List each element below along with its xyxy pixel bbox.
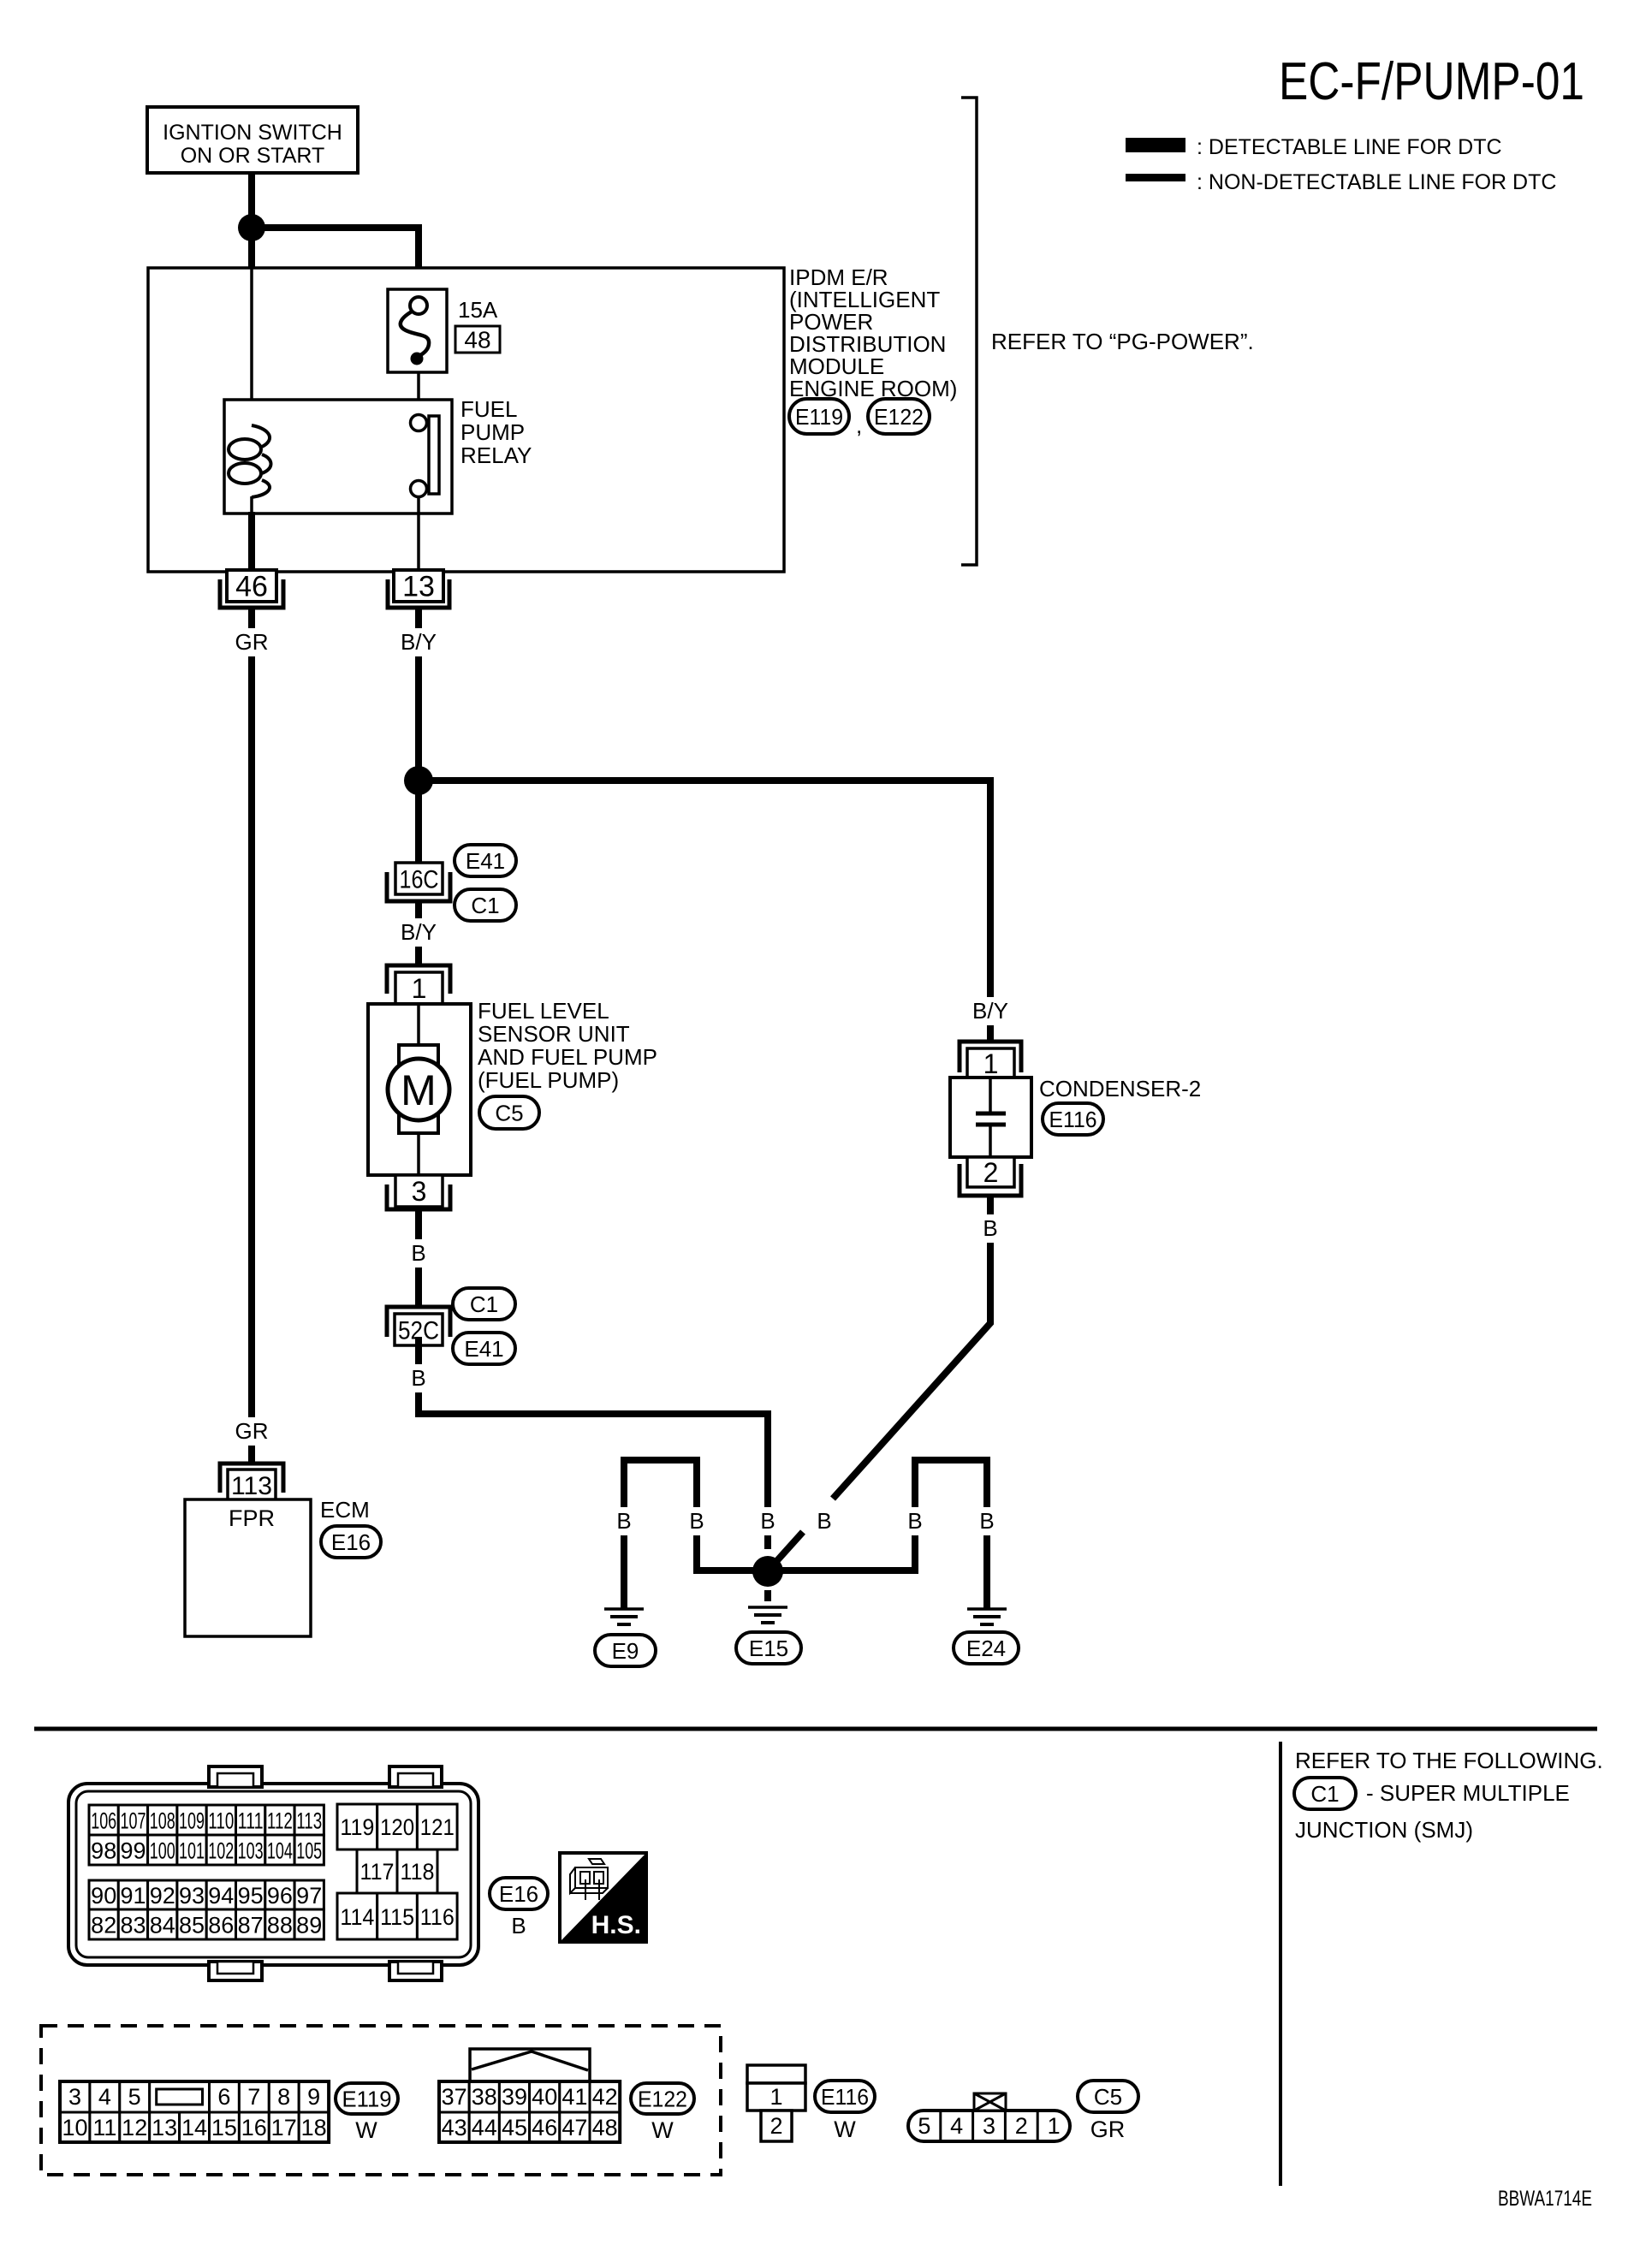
svg-text:REFER TO “PG-POWER”.: REFER TO “PG-POWER”. [991,329,1254,354]
C1 oval (SMJ note) [1294,1778,1356,1809]
svg-text:114: 114 [340,1904,374,1930]
E122 connector face grid [439,2081,620,2142]
wire junction to 16C [415,781,422,863]
connector E41 oval (16C) [455,845,516,876]
svg-text:(FUEL PUMP): (FUEL PUMP) [478,1067,619,1093]
wire B/Y: pin13 down to junction [415,608,422,781]
svg-text:102: 102 [208,1838,234,1864]
svg-text:42: 42 [592,2084,618,2110]
svg-text:113: 113 [231,1472,272,1500]
svg-text:14: 14 [181,2115,207,2140]
fuel pump pin 3 connector [387,1175,450,1209]
svg-text:W: W [651,2117,674,2143]
svg-text:RELAY: RELAY [461,442,532,468]
svg-text:FPR: FPR [229,1505,275,1531]
wire color label B (E9 right arm) [685,1507,709,1535]
ignition switch box [147,107,358,173]
fuse number 48 box [455,326,500,353]
svg-text:83: 83 [120,1913,146,1938]
svg-text:E9: E9 [612,1638,639,1664]
svg-text:9: 9 [307,2084,320,2110]
wire color label B (on diagonal) [812,1507,836,1535]
svg-text:87: 87 [238,1913,264,1938]
pin 46 connector [220,570,283,608]
svg-text:103: 103 [238,1838,264,1864]
connector E122 oval [868,399,930,434]
E122 roof tab [470,2049,590,2081]
wire color label B (below 52C) [407,1364,431,1392]
svg-text:E16: E16 [499,1881,538,1907]
svg-text:117: 117 [360,1859,395,1885]
connector E119 oval (face) [336,2083,398,2114]
connector E24 oval [954,1632,1019,1664]
wire color label B (E24 left arm) [903,1507,927,1535]
svg-text:15: 15 [211,2115,237,2140]
svg-text:E41: E41 [464,1336,503,1362]
svg-text:SENSOR UNIT: SENSOR UNIT [478,1021,630,1047]
svg-text:ON OR START: ON OR START [181,144,325,168]
legend: detectable line sample [1126,135,1502,159]
svg-text:44: 44 [472,2115,497,2140]
svg-text:B: B [689,1508,704,1534]
connector E116 oval [1043,1103,1103,1135]
ground symbol E24 [967,1609,1007,1624]
svg-text:B: B [411,1240,425,1266]
svg-text:95: 95 [238,1883,264,1909]
svg-text:7: 7 [247,2084,260,2110]
svg-text:116: 116 [420,1904,455,1930]
wire coil branch inside IPDM [250,268,253,425]
svg-text:: NON-DETECTABLE LINE FOR DTC: : NON-DETECTABLE LINE FOR DTC [1197,170,1556,194]
E116 connector face [747,2065,805,2141]
svg-text:E119: E119 [342,2086,392,2111]
connector E15 oval [736,1632,801,1664]
svg-text:45: 45 [502,2115,527,2140]
svg-text:13: 13 [152,2115,177,2140]
condenser-2 box with capacitor [950,1078,1031,1157]
svg-text:84: 84 [150,1913,175,1938]
wire color label GR (C5) [1090,2117,1126,2142]
svg-text:12: 12 [122,2115,147,2140]
svg-text:2: 2 [983,1157,999,1188]
fuse 15A box [388,289,447,372]
connector E16 oval (face) [490,1878,548,1909]
svg-text:4: 4 [950,2113,963,2139]
condenser-2 label [1039,1076,1201,1101]
svg-text:4: 4 [98,2084,111,2110]
svg-text:111: 111 [238,1808,264,1834]
wire junction to condenser branch [419,781,990,1041]
wire coil to pin 46 [250,496,253,570]
wire to ground E9 (staple) [624,1460,753,1610]
svg-text:IGNTION SWITCH: IGNTION SWITCH [163,121,342,145]
wire color label GR (top) [233,628,270,656]
IPDM E/R box [148,268,784,572]
wire contact to pin 13 [417,496,420,570]
svg-text:3: 3 [412,1176,427,1207]
svg-text:106: 106 [91,1808,116,1834]
svg-text:38: 38 [472,2084,497,2110]
svg-text:B: B [760,1508,775,1534]
connector 16C (SMJ) [387,863,450,901]
svg-text:37: 37 [442,2084,467,2110]
wire color label B (below condenser) [978,1214,1002,1243]
wire color label B (below pin 3) [407,1239,431,1268]
junction node B/Y split [404,766,433,795]
svg-text:47: 47 [562,2115,587,2140]
svg-text:E16: E16 [331,1529,371,1555]
svg-text:H.S.: H.S. [591,1911,641,1939]
svg-text:GR: GR [235,1418,269,1444]
svg-text:E15: E15 [749,1636,788,1661]
svg-text:C5: C5 [495,1100,523,1125]
svg-text:48: 48 [464,327,490,353]
svg-text:11: 11 [92,2115,116,2140]
svg-text:39: 39 [502,2084,527,2110]
E119 connector face grid [60,2081,329,2142]
svg-text:E116: E116 [1049,1107,1097,1132]
svg-text:B: B [979,1508,994,1534]
wire junction down into IPDM (coil branch) [248,228,255,268]
ECM box [185,1499,311,1636]
svg-text:PUMP: PUMP [461,419,525,445]
vertical divider [1279,1742,1282,2186]
svg-text:JUNCTION (SMJ): JUNCTION (SMJ) [1295,1817,1473,1843]
svg-text:1: 1 [983,1048,999,1079]
ECM pin 113 connector [220,1464,283,1500]
wire B: condenser to ground junction (diagonal) [772,1196,990,1566]
svg-text:118: 118 [401,1859,435,1885]
svg-text:101: 101 [179,1838,205,1864]
connector C1 oval (52C) [453,1288,515,1320]
svg-text:1: 1 [412,973,427,1004]
motor symbol M [388,1004,449,1175]
wire B: 52C down and right to ground junction [419,1337,768,1549]
svg-text:97: 97 [296,1883,322,1909]
svg-text:89: 89 [296,1913,322,1938]
ECM connector E16 housing [68,1766,478,1980]
H.S. logo [560,1853,646,1942]
svg-text:GR: GR [235,629,269,655]
svg-text:41: 41 [562,2084,587,2110]
svg-text:C1: C1 [1310,1781,1339,1807]
wire junction to fuse branch [252,228,419,289]
svg-text:- SUPER MULTIPLE: - SUPER MULTIPLE [1366,1780,1570,1806]
svg-text:E122: E122 [874,404,924,430]
refer to PG-POWER note [991,329,1254,354]
wire color label W (E119) [355,2117,377,2143]
wire color label B (E9 left) [612,1507,636,1535]
svg-text:46: 46 [235,571,268,603]
svg-text:AND FUEL PUMP: AND FUEL PUMP [478,1044,657,1070]
comma between ovals [856,413,862,438]
svg-text:94: 94 [208,1883,234,1909]
svg-text:107: 107 [121,1808,146,1834]
C5 connector face (pill) [908,2093,1070,2141]
svg-text:B/Y: B/Y [972,998,1008,1024]
fuel pump pin 1 connector [387,965,450,1004]
ground symbol E9 [604,1609,644,1624]
svg-text:1: 1 [1048,2113,1061,2139]
svg-text:48: 48 [592,2115,618,2140]
svg-text:109: 109 [179,1808,205,1834]
connector C5 oval (face) [1078,2081,1138,2112]
svg-text:91: 91 [120,1883,146,1909]
svg-text:B/Y: B/Y [401,629,437,655]
svg-text:ECM: ECM [320,1497,370,1523]
wire color label W (E116) [834,2117,856,2142]
fuel pump relay label [461,396,532,468]
svg-text:121: 121 [420,1814,455,1840]
wire color label B (E24 right) [975,1507,999,1535]
svg-text:93: 93 [179,1883,205,1909]
svg-text:16C: 16C [400,865,439,894]
svg-text:6: 6 [217,2084,230,2110]
svg-text:99: 99 [120,1838,146,1864]
fuel level sensor unit box [368,1004,471,1175]
junction node (ignition feed) [238,214,265,241]
wire color label B/Y (condenser branch) [965,997,1016,1025]
SMJ note text [1295,1780,1570,1843]
svg-text:15A: 15A [458,297,498,323]
svg-text:86: 86 [208,1913,234,1938]
svg-text:92: 92 [150,1883,175,1909]
relay coil [229,425,271,497]
E16 left pin grid (pins 82-113) [89,1805,324,1939]
svg-text:B: B [511,1913,526,1938]
svg-text:B: B [817,1508,831,1534]
svg-text:E122: E122 [638,2086,687,2111]
wire color label B (E16 face) [511,1913,526,1938]
title EC-F/PUMP-01 [1279,52,1584,111]
ground symbol E15 [748,1607,787,1623]
IPDM E/R label [789,264,957,401]
wire color label GR (bottom) [233,1417,270,1446]
svg-text:3: 3 [68,2084,81,2110]
svg-text:43: 43 [442,2115,467,2140]
svg-text:120: 120 [380,1814,414,1840]
svg-text:5: 5 [128,2084,141,2110]
svg-text:18: 18 [301,2115,327,2140]
dashed detail box [41,2026,721,2175]
svg-text:5: 5 [918,2113,930,2139]
svg-text:M: M [401,1066,437,1114]
svg-text:82: 82 [91,1913,116,1938]
condenser pin 1 connector [960,1042,1021,1079]
svg-text:112: 112 [267,1808,293,1834]
connector E116 oval (face) [815,2081,875,2112]
bracket for refer note [961,98,977,565]
drawing code [1498,2187,1592,2211]
svg-text:REFER TO THE FOLLOWING.: REFER TO THE FOLLOWING. [1295,1748,1603,1773]
svg-text:E119: E119 [795,404,843,430]
connector C5 oval [479,1096,539,1129]
svg-text:E24: E24 [966,1636,1006,1661]
wire color label B (center) [756,1507,780,1535]
svg-text:FUEL LEVEL: FUEL LEVEL [478,998,609,1024]
connector 52C (SMJ) [387,1307,450,1345]
wire ignition to junction [248,173,255,223]
relay contact circles and armature [411,415,440,497]
svg-text:B: B [411,1365,425,1391]
svg-text:W: W [355,2117,377,2143]
svg-text:40: 40 [532,2084,557,2110]
dashed stub to E15 ground [764,1590,771,1601]
svg-text:2: 2 [769,2113,782,2139]
svg-text:C1: C1 [471,893,499,918]
wire color label B/Y (below 16C) [393,918,444,947]
separator line [34,1727,1597,1731]
svg-text:17: 17 [271,2115,297,2140]
svg-text:105: 105 [296,1838,322,1864]
svg-text:E41: E41 [466,848,505,874]
svg-text:GR: GR [1090,2117,1126,2142]
svg-text:1: 1 [769,2084,782,2110]
wire B: pin3 to 52C [415,1209,422,1307]
svg-text:98: 98 [91,1838,116,1864]
ground junction node [752,1556,783,1587]
ECM label [320,1497,370,1523]
svg-text:C1: C1 [470,1291,498,1317]
svg-text:85: 85 [179,1913,205,1938]
svg-text:110: 110 [208,1808,234,1834]
svg-text:88: 88 [267,1913,293,1938]
svg-text:96: 96 [267,1883,293,1909]
svg-text:,: , [856,413,862,438]
pin 13 connector [388,570,449,608]
svg-text:FUEL: FUEL [461,396,517,422]
svg-text:W: W [834,2117,856,2142]
fuel pump relay box [224,400,452,514]
wire to ground E24 (staple) [782,1460,987,1610]
wire 16C to fuel pump pin 1 [415,901,422,965]
svg-text:2: 2 [1015,2113,1028,2139]
fuse rating 15A [458,297,498,323]
svg-text:B: B [907,1508,922,1534]
connector E41 oval (52C) [453,1333,515,1364]
fuel pump label [478,998,657,1093]
svg-text:B/Y: B/Y [401,919,437,945]
wire color label W (E122) [651,2117,674,2143]
svg-text:B: B [983,1215,997,1241]
svg-text:90: 90 [91,1883,116,1909]
svg-text:EC-F/PUMP-01: EC-F/PUMP-01 [1279,52,1584,111]
svg-text:: DETECTABLE LINE FOR DTC: : DETECTABLE LINE FOR DTC [1197,135,1502,159]
svg-text:8: 8 [277,2084,290,2110]
connector C1 oval (16C) [455,889,516,921]
svg-text:16: 16 [241,2115,267,2140]
connector E119 oval [789,399,849,434]
connector E9 oval [595,1635,656,1666]
svg-text:10: 10 [62,2115,87,2140]
svg-text:B: B [616,1508,631,1534]
condenser pin 2 connector [960,1157,1021,1196]
svg-text:104: 104 [267,1838,293,1864]
connector E16 oval (ECM) [321,1526,381,1558]
svg-text:3: 3 [983,2113,995,2139]
wire fuse to relay contact [417,372,420,414]
svg-text:115: 115 [380,1904,414,1930]
svg-text:46: 46 [532,2115,557,2140]
legend: non-detectable line sample [1126,170,1556,194]
svg-text:BBWA1714E: BBWA1714E [1498,2187,1592,2211]
svg-text:119: 119 [340,1814,374,1840]
svg-text:C5: C5 [1094,2084,1122,2110]
E16 right pin grid (pins 114-121) [337,1804,457,1939]
svg-text:113: 113 [296,1808,322,1834]
svg-text:100: 100 [150,1838,175,1864]
connector E122 oval (face) [631,2083,694,2114]
svg-text:CONDENSER-2: CONDENSER-2 [1039,1076,1201,1101]
refer to the following note [1295,1748,1603,1773]
svg-text:E116: E116 [821,2084,869,2110]
wire color label B/Y (below pin 13) [393,628,444,656]
svg-text:13: 13 [402,571,435,603]
wire GR: pin46 down to ECM pin 113 [248,608,255,1465]
svg-text:108: 108 [150,1808,175,1834]
